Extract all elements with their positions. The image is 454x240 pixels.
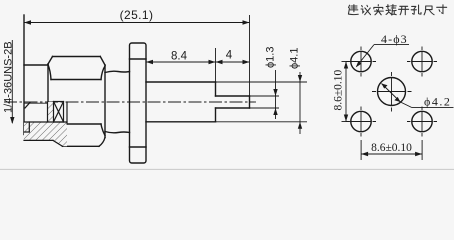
crosshair BL hole — [346, 121, 376, 123]
svg-text:ϕ4.2: ϕ4.2 — [424, 95, 451, 109]
phi1.3 ext top — [250, 95, 279, 97]
section hatch A: nut wall under bore — [24, 122, 48, 140]
bore bottom line — [24, 121, 67, 123]
hex right edge — [104, 65, 106, 138]
insulator box — [54, 102, 64, 123]
dim 8.4 / 4 line — [146, 61, 250, 63]
leader 4-phi3 — [357, 45, 410, 67]
front stub top edge — [24, 64, 48, 66]
flange inner line lower — [130, 146, 147, 148]
hex chamfer top-right — [100, 57, 105, 66]
char 安 — [374, 5, 384, 15]
hole BR — [412, 111, 432, 131]
bore end vertical — [47, 102, 49, 122]
arrows 4 — [216, 60, 223, 64]
center hole diameter arrow — [382, 84, 454, 108]
hex bottom silhouette — [63, 145, 100, 147]
char 装 — [386, 5, 396, 15]
char 寸 — [437, 5, 447, 14]
svg-text:1/4-36UNS-2B: 1/4-36UNS-2B — [3, 41, 15, 113]
hex flat line upper — [51, 79, 101, 81]
phi4.1 ext top — [216, 81, 308, 83]
bottom edge hairline — [0, 168, 454, 170]
arrows 8.4 — [146, 60, 153, 64]
centerline — [4, 101, 256, 103]
thread leader line — [11, 40, 13, 123]
shaft bottom edge — [146, 121, 216, 123]
section cut slant to nut bottom — [53, 140, 63, 146]
neck bottom edge (wavy) — [105, 132, 130, 133]
thread relief step horizontal — [24, 131, 29, 133]
char 建 — [348, 5, 358, 15]
char 议 — [361, 5, 371, 14]
center hole — [378, 78, 406, 106]
arrows phi1.3 — [273, 89, 277, 96]
arrow thread leader — [10, 117, 14, 124]
hex nut top silhouette — [53, 56, 101, 58]
thread relief step vertical — [28, 122, 30, 132]
flange outline — [130, 43, 147, 163]
pin top edge — [216, 95, 250, 97]
pin bottom edge — [216, 107, 250, 109]
svg-text:ϕ4.1: ϕ4.1 — [289, 48, 301, 69]
char 孔 — [411, 5, 421, 14]
hex left edge — [47, 64, 49, 122]
front section bottom edge — [24, 139, 53, 141]
flange inner line upper — [130, 58, 147, 60]
bore entry chamfer — [25, 103, 30, 109]
ext line at shaft step — [215, 48, 217, 82]
svg-text:8.6±0.10: 8.6±0.10 — [371, 142, 412, 154]
pin tip face — [249, 96, 251, 108]
svg-text:(25.1): (25.1) — [120, 8, 154, 22]
crosshair TR hole — [407, 61, 437, 63]
body bore edge behind insulator — [66, 102, 68, 124]
phi1.3 dim line — [275, 70, 277, 119]
section hatch B: wall between bore and insulator — [48, 102, 54, 122]
bottom dim 8.6 +/-0.10 — [361, 140, 422, 160]
crosshair BR hole — [407, 121, 437, 123]
hex face arc top-left — [48, 65, 51, 80]
svg-text:8.4: 8.4 — [171, 51, 188, 63]
shaft end face lower — [215, 108, 217, 122]
hole BL — [351, 111, 371, 131]
front face vertical — [23, 15, 25, 135]
vertical dim 8.6 +/-0.10 — [342, 62, 352, 122]
svg-text:4-ϕ3: 4-ϕ3 — [381, 32, 408, 46]
hex face arc top-right — [101, 66, 105, 80]
hex face arc bottom-right — [101, 124, 105, 136]
title (CJK drawn as strokes) — [348, 5, 446, 15]
arrows (25.1) — [24, 20, 31, 24]
hex bottom-right chamfer arc — [99, 138, 105, 147]
shaft top edge — [146, 81, 216, 83]
crosshair TL hole — [346, 61, 376, 63]
svg-text:ϕ1.3: ϕ1.3 — [265, 47, 277, 68]
ext line right of (25.1) — [249, 15, 251, 96]
phi1.3 ext bottom — [250, 107, 279, 109]
dim (25.1) line — [24, 22, 250, 24]
char 尺 — [424, 6, 434, 15]
insulator cross X — [54, 102, 64, 123]
hex chamfer top-left — [48, 57, 53, 65]
char 开 — [399, 6, 409, 14]
phi4.1 dim line — [299, 72, 301, 134]
svg-text:4: 4 — [226, 50, 233, 62]
hex flat line lower — [67, 123, 101, 125]
crosshair center hole — [372, 91, 412, 93]
neck top edge (wavy) — [105, 71, 130, 72]
section hatch C: body under insulator — [48, 122, 68, 146]
hole TL — [351, 51, 371, 71]
hole crosshair centerlines — [346, 47, 437, 137]
arrows phi4.1 — [298, 75, 302, 82]
svg-text:8.6±0.10: 8.6±0.10 — [333, 69, 345, 110]
shaft end face upper — [215, 82, 217, 96]
bore top section-boundary line — [24, 102, 48, 104]
hole TR — [412, 51, 432, 71]
phi4.1 ext bottom — [216, 121, 308, 123]
